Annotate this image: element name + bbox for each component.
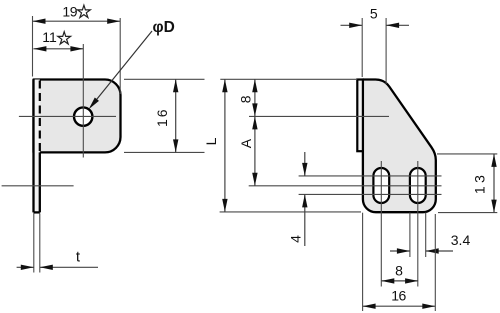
right view: hole centerline extension from left view	[249, 115, 389, 117]
dimension 5 (top offset)	[341, 5, 410, 84]
dimension 16 (plate height)	[124, 79, 205, 152]
extension line: part bottom edge to L dim	[220, 211, 361, 213]
left view: hole horizontal centerline	[19, 115, 116, 117]
dimension L (overall height)	[203, 79, 228, 212]
extension line: slot 2 right edge (for 3.4)	[425, 213, 427, 258]
dimension A (hole centerline to slot centerline)	[238, 116, 258, 185]
dimension 8 (slot pitch, bottom)	[381, 263, 418, 284]
right view: slot upper arc-center line	[299, 175, 442, 177]
svg-text:t: t	[76, 249, 81, 266]
svg-text:L: L	[203, 137, 219, 145]
dimension 8 (top to hole centerline)	[237, 79, 257, 116]
dimension 13 (right side height)	[437, 154, 497, 213]
svg-text:8: 8	[395, 263, 403, 279]
dimension 19 (top width)	[33, 3, 121, 94]
right view: slot lower arc-center line	[299, 193, 442, 195]
svg-text:16: 16	[154, 107, 170, 127]
right view: plate seen edge-on (narrow strip)	[357, 80, 363, 152]
dimension 3.4 (slot width)	[390, 232, 470, 254]
right view: slot 2 (right obround)	[410, 168, 426, 203]
svg-text:8: 8	[237, 95, 253, 103]
svg-text:13: 13	[472, 172, 488, 195]
svg-text:11: 11	[42, 29, 57, 45]
extension line: body right edge (for 16)	[434, 214, 436, 311]
svg-text:16: 16	[391, 288, 406, 304]
right view: slot 2 vertical centerline	[417, 161, 419, 287]
left view: side flange seen edge-on (vertical strip)	[34, 80, 40, 213]
left view: bracket plate (front view)	[34, 80, 121, 153]
svg-text:4: 4	[288, 235, 304, 243]
svg-text:19: 19	[62, 3, 77, 19]
dimension 16 (body width, bottom)	[363, 288, 436, 309]
svg-text:A: A	[238, 138, 254, 148]
left view: hole phi-D	[74, 107, 92, 125]
dimension t (thickness)	[17, 214, 98, 273]
extension line: part top edge to L dim	[220, 78, 357, 80]
dimension 4 (slot arc centers)	[288, 152, 308, 246]
extension line: body left edge (for 16)	[362, 213, 364, 311]
svg-text:φD: φD	[153, 19, 175, 36]
right view: horizontal centerline of slots (mid)	[249, 185, 442, 187]
dimension 11 (hole position)	[33, 29, 83, 51]
left view: slot centerline through flange	[2, 185, 74, 187]
svg-text:3.4: 3.4	[451, 232, 471, 248]
label phi D with leader	[87, 19, 175, 111]
right view: bracket body (side view with slots)	[363, 80, 436, 213]
right view: slot 1 (left obround)	[373, 168, 389, 203]
left view: hole vertical centerline	[82, 44, 84, 158]
extension line: slot 2 left edge (for 3.4)	[409, 213, 411, 258]
svg-text:5: 5	[370, 5, 378, 21]
right view: slot 1 vertical centerline	[380, 161, 382, 287]
left view: bend line (dashed hidden edge)	[39, 81, 41, 153]
